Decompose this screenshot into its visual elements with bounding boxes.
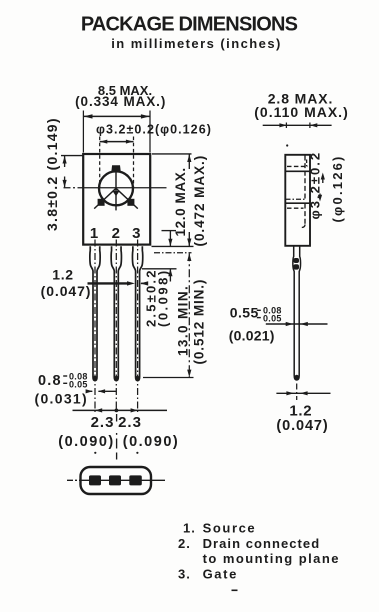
svg-text:0.55: 0.55	[230, 305, 259, 321]
side view: hidden dashed vertical lower with hook	[302, 204, 305, 228]
label 1.2 (side)	[289, 402, 312, 419]
label 2.3 (left)	[91, 414, 115, 431]
dimension 13.0 MIN: upper arrowhead	[187, 253, 191, 261]
svg-text:3.8±0.2 (0.149): 3.8±0.2 (0.149)	[44, 117, 60, 231]
svg-text:3: 3	[132, 225, 140, 242]
front view: horizontal centerline through hole	[64, 187, 167, 189]
dimension 2.5: lower arrow	[168, 269, 172, 282]
dimension 2.5: bottom extension line (lead shoulder end)	[142, 268, 177, 270]
svg-text:(0.021): (0.021)	[229, 328, 275, 344]
label (phi 0.126) rotated (side)	[330, 154, 345, 222]
svg-text:(0.334 MAX.): (0.334 MAX.)	[75, 94, 166, 109]
label (0.021)	[229, 328, 275, 344]
bottom view: lead 3 pad (filled)	[129, 475, 142, 485]
dimension 1.2: right stub with left-pointing arrow	[140, 281, 148, 285]
bottom view: lead 2 pad (filled)	[109, 475, 121, 485]
label (0.098) rotated	[156, 268, 171, 327]
svg-text:PACKAGE DIMENSIONS: PACKAGE DIMENSIONS	[81, 14, 298, 36]
front view: package body outline	[83, 154, 150, 245]
label (0.472 MAX.) rotated	[192, 155, 207, 247]
center leg centerline marks below 2.3 labels	[116, 414, 118, 460]
legend line 1: 1. Source	[183, 521, 256, 536]
svg-text:(0.090): (0.090)	[123, 434, 179, 450]
label 8.5 MAX.	[98, 83, 152, 98]
svg-text:(0.047): (0.047)	[41, 283, 92, 299]
label (0.512 MIN.) rotated	[192, 279, 207, 365]
svg-text:(φ0.126): (φ0.126)	[330, 154, 345, 222]
dimension phi3.2 side: small arrows	[318, 173, 325, 202]
stray dot above side body	[286, 144, 288, 146]
legend line 4: 3. Gate	[178, 566, 238, 581]
dimension 3.8: lower arrow	[63, 177, 67, 188]
dimension 12.0 MAX: top extension line	[152, 153, 192, 155]
front view: lead 1 (source) centerline	[94, 240, 96, 413]
dimension 3.8: top extension line	[61, 155, 84, 157]
side view: dash-dot hole line	[286, 198, 307, 200]
svg-text:12.0 MAX.: 12.0 MAX.	[173, 167, 188, 236]
dimension 0.8: right arrow with tail	[98, 389, 117, 393]
side view: hole top line (solid)	[285, 170, 310, 172]
dimension phi3.2: right dashed extension line	[133, 137, 135, 189]
label 3.8 +-0.2 (0.149) rotated	[44, 117, 60, 231]
front view: lead 3 (gate) centerline	[137, 240, 139, 413]
svg-text:(0.512 MIN.): (0.512 MIN.)	[192, 279, 207, 365]
side view: short dashed vertical hook upper right	[306, 160, 308, 167]
dimension 13.0 MIN: dash-dot dimension line	[188, 253, 190, 377]
front view: spoke to lower-left rivet	[94, 188, 116, 208]
svg-text:2.: 2.	[178, 536, 191, 551]
dimension 12.0 MAX: bottom extension line (body bottom extended)	[152, 245, 194, 247]
label (0.031)	[35, 391, 88, 407]
svg-text:0.05: 0.05	[69, 380, 88, 390]
side view: lead tip dark fill	[294, 375, 299, 381]
side view: label (0.110 MAX.)	[254, 104, 348, 120]
svg-text:Source: Source	[203, 521, 257, 536]
svg-text:1.2: 1.2	[52, 267, 74, 283]
svg-text:(0.110 MAX.): (0.110 MAX.)	[254, 104, 348, 120]
side view: label 2.8 MAX.	[268, 91, 334, 107]
side view: lead centerline below tip	[296, 384, 298, 401]
front view: pin number 3	[132, 225, 140, 242]
stray centerline dots above bottom view	[94, 452, 138, 454]
side view: hidden dashed line lower	[287, 207, 304, 209]
svg-text:1.: 1.	[183, 521, 196, 536]
label (0.047)	[41, 283, 92, 299]
dimension 12.0 MAX: upper arrow	[187, 154, 191, 169]
dimension 1.2: leader line with right-pointing arrow at lead 3	[88, 281, 135, 285]
label 2.5 +-0.2 rotated	[144, 268, 159, 327]
svg-text:0.8: 0.8	[38, 373, 62, 389]
side view: hole bottom line (solid)	[285, 202, 310, 204]
label (0.090) (left)	[58, 434, 114, 450]
dimension 12.0 MAX: lower arrow	[187, 232, 191, 246]
svg-text:(0.098): (0.098)	[156, 268, 171, 327]
label (0.334 MAX.)	[75, 94, 166, 109]
svg-text:(0.472 MAX.): (0.472 MAX.)	[192, 155, 207, 247]
dimension 13.0 MIN: lower arrowhead	[187, 370, 191, 378]
front view: lead 2 (drain) centerline	[115, 240, 117, 413]
front view: index tab on hole (filled)	[111, 165, 121, 172]
svg-text:φ3.2±0.2(φ0.126): φ3.2±0.2(φ0.126)	[96, 122, 212, 136]
svg-text:1.2: 1.2	[289, 402, 312, 419]
bottom view: lead 1 pad (filled)	[89, 475, 101, 485]
label 0.55 with tolerance stack	[230, 305, 282, 324]
label 0.8 with tolerance stack	[38, 372, 88, 390]
label 1.2 (lead width callout)	[52, 267, 74, 283]
svg-text:2.3: 2.3	[118, 414, 142, 431]
dimension 0.55: line with arrows at lead edges	[266, 322, 328, 326]
svg-text:0.05: 0.05	[263, 314, 282, 324]
svg-text:13.0 MIN.: 13.0 MIN.	[175, 285, 190, 356]
label phi 3.2+-0.2 rotated (side)	[308, 151, 323, 220]
front view: lead 3 (gate) outline	[132, 246, 142, 381]
side view: body outline	[285, 155, 310, 246]
side view: lead outline	[293, 246, 301, 380]
svg-text:Drain connected: Drain connected	[203, 536, 321, 551]
front view: lead 2 (drain) outline	[111, 246, 121, 381]
label 2.3 (right)	[118, 414, 142, 431]
svg-text:(0.047): (0.047)	[276, 418, 328, 434]
dimension phi3.2: left dashed extension line	[99, 137, 101, 189]
side view: lead shoulder dark fill	[293, 258, 299, 270]
svg-text:(0.031): (0.031)	[35, 391, 88, 407]
front view: lower-left rivet square (filled)	[98, 199, 105, 206]
bottom view: horizontal centerline	[67, 479, 166, 481]
dimension 0.8: left arrow at lead 1	[86, 389, 93, 393]
label 13.0 MIN. rotated	[175, 285, 190, 356]
dimension 2.8 MAX: left extension stub	[285, 123, 287, 129]
front view: pin number 2	[112, 225, 120, 242]
svg-text:2.3: 2.3	[91, 414, 115, 431]
svg-text:in millimeters (inches): in millimeters (inches)	[111, 36, 282, 51]
label (0.090) (right)	[123, 434, 179, 450]
front view: spoke to lower-right rivet	[116, 188, 138, 208]
front view: pin number 1	[90, 225, 98, 242]
front view: center wedge mark	[112, 191, 119, 196]
dimension 8.5 MAX: right extension line	[149, 111, 151, 153]
front view: mounting hole circle	[99, 171, 133, 205]
side view: hidden dashed vertical (tab depth)	[304, 156, 306, 199]
dimension 2.8 MAX: right extension stub	[309, 123, 311, 129]
svg-text:2: 2	[112, 225, 120, 242]
side view: hidden dashed line upper (hole chamfer)	[287, 165, 308, 167]
dimension phi3.2: dimension line with arrows	[100, 140, 134, 144]
label 12.0 MAX. rotated	[173, 167, 188, 236]
dimension 3.8: upper arrow	[63, 156, 67, 167]
svg-text:φ3.2±0.2: φ3.2±0.2	[308, 151, 323, 220]
front view: hole crosshair vertical line	[115, 172, 117, 211]
front view: lower-right rivet square (filled)	[127, 199, 134, 206]
dimension 2.5: upper arrow with tail bar	[162, 231, 177, 247]
dimension 2.8 MAX: dimension line with inward arrows	[263, 123, 332, 127]
svg-text:3.: 3.	[178, 566, 191, 581]
dimension 8.5 MAX: left extension line	[82, 111, 84, 153]
legend line 2: 2. Drain connected	[178, 536, 320, 551]
dimension 1.2 side: line with arrows	[276, 391, 330, 395]
dimension 13.0 MIN: bottom extension line (lead tips)	[143, 377, 194, 379]
stray mark below legend	[232, 590, 238, 592]
svg-text:to mounting plane: to mounting plane	[203, 551, 340, 566]
dimension 13.0 MIN: top dash-dot extension line	[154, 252, 192, 254]
title PACKAGE DIMENSIONS	[81, 14, 298, 36]
dimension 8.5 MAX: dimension line with arrows	[83, 114, 150, 118]
label phi 3.2 +-0.2 (phi 0.126)	[96, 122, 212, 136]
legend line 3: to mounting plane	[203, 551, 340, 566]
svg-text:Gate: Gate	[203, 566, 238, 581]
svg-text:(0.090): (0.090)	[58, 434, 114, 450]
dimension 2.3/2.3: chain dimension line	[73, 408, 168, 412]
label (0.047) (side)	[276, 418, 328, 434]
front view: lead 1 (source) outline	[90, 246, 100, 381]
bottom view: outline rounded rectangle	[81, 467, 152, 494]
svg-text:1: 1	[90, 225, 98, 242]
subtitle in millimeters (inches)	[111, 36, 282, 51]
